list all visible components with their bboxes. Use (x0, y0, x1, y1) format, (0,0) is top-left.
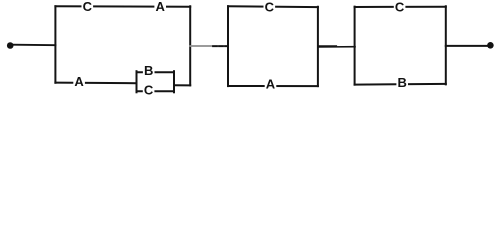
wire: sub-network right vertical bus (173, 71, 175, 92)
node: input terminal dot (7, 42, 14, 49)
wire: block 3 right vertical bus (445, 6, 447, 84)
wire: sub-network exit segment to block 1 right bus (174, 84, 190, 86)
wire: sub-network bottom branch (contact C) (137, 90, 175, 92)
wire: block 1 left vertical bus (54, 6, 56, 83)
svg-text:C: C (395, 0, 405, 15)
contact label C (sub-network bottom) (143, 84, 155, 96)
contact label C (block 3 top) (394, 1, 406, 13)
wire: connector block 1 to block 2 (190, 45, 228, 47)
wire: sub-network top branch (contact B) (137, 71, 175, 73)
wire: block 1 right vertical bus (189, 6, 191, 85)
contact label C (block 2 top) (264, 1, 276, 13)
svg-text:A: A (156, 0, 166, 14)
wire: connector 2 darker left portion (319, 45, 337, 47)
svg-text:B: B (398, 75, 407, 90)
wire: block 2 right vertical bus (317, 7, 319, 86)
wire: block 3 left vertical bus (354, 7, 356, 85)
svg-text:C: C (265, 0, 275, 15)
node: output terminal dot (487, 42, 494, 49)
contact label A (block 1 top, second) (154, 1, 166, 13)
wire: block 1 bottom branch left segment (through contact A) (55, 82, 136, 85)
wire: block 3 top branch (contact C) (355, 6, 446, 8)
contact label A (block 2 bottom) (265, 78, 277, 90)
wire: connector 1 darker dashes (213, 45, 227, 47)
svg-text:A: A (266, 77, 276, 92)
wire: block 3 bottom branch (contact B) (355, 83, 446, 86)
contact label B (sub-network top) (143, 65, 155, 77)
wire: sub-network left vertical bus (136, 71, 138, 92)
svg-text:B: B (144, 63, 153, 78)
contact label A (block 1 bottom) (73, 75, 85, 87)
svg-text:C: C (144, 83, 154, 98)
contact label B (block 3 bottom) (396, 77, 408, 89)
wire: left lead from input terminal to block 1 (12, 44, 55, 47)
wire: right lead from block 3 to output terminal (446, 45, 488, 47)
svg-text:C: C (83, 0, 93, 14)
contact label C (block 1 top, first) (82, 1, 94, 13)
wire: block 1 top branch (through contacts C and A) (55, 5, 190, 8)
wire: block 2 left vertical bus (227, 6, 229, 86)
wire: block 2 bottom branch (contact A) (228, 85, 318, 87)
wire: connector block 2 to block 3 (318, 46, 355, 48)
wire: block 2 top branch (contact C) (228, 5, 318, 8)
svg-text:A: A (74, 74, 84, 89)
